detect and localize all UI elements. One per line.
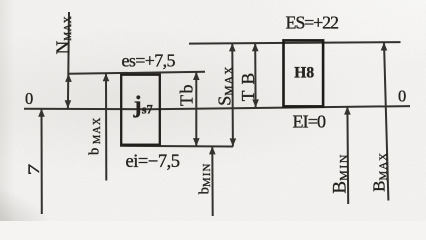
svg-text:ei=−7,5: ei=−7,5 (126, 152, 181, 172)
svg-text:0: 0 (25, 89, 33, 108)
svg-text:7: 7 (26, 163, 43, 175)
svg-text:es=+7,5: es=+7,5 (122, 50, 176, 70)
svg-text:H8: H8 (294, 65, 314, 82)
svg-text:Tb: Tb (177, 83, 197, 106)
svg-text:EI=0: EI=0 (293, 111, 327, 131)
svg-text:TB: TB (238, 67, 258, 101)
svg-text:0: 0 (398, 87, 406, 106)
svg-text:ES=+22: ES=+22 (286, 12, 340, 32)
